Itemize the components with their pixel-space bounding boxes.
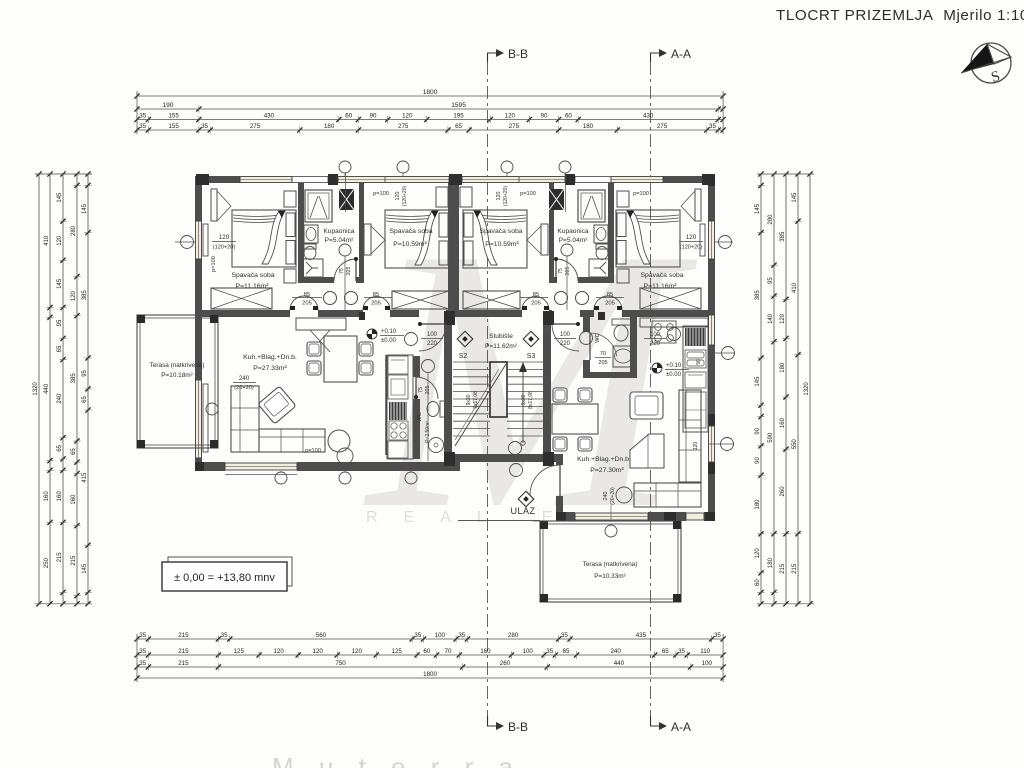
bedroom3 bed <box>463 210 527 268</box>
svg-text:160: 160 <box>71 494 77 505</box>
interior wall bath2/bedroom4 <box>608 183 614 283</box>
left dimension block end lines <box>35 173 92 175</box>
right dimension chain col 2 <box>773 174 775 604</box>
left dimension chain col 2 <box>49 174 51 604</box>
left level marker <box>367 329 377 339</box>
watermark logo M <box>362 172 702 587</box>
bedroom3 wardrobe <box>541 224 548 255</box>
svg-text:1320: 1320 <box>33 382 39 396</box>
svg-text:65: 65 <box>662 648 669 655</box>
wall pier blocks right wall <box>708 414 715 426</box>
svg-text:Spavača soba: Spavača soba <box>479 228 522 235</box>
svg-text:Kuh.+Blag.+Dn.b.: Kuh.+Blag.+Dn.b. <box>243 354 297 361</box>
top dimension block end lines <box>136 91 138 134</box>
right living armchair <box>630 392 663 419</box>
wall pier blocks top <box>196 174 209 185</box>
left living sofa vertical <box>231 386 259 452</box>
svg-text:35: 35 <box>546 648 553 655</box>
svg-text:95: 95 <box>768 277 774 284</box>
stair marker S3 <box>523 331 539 347</box>
svg-text:205: 205 <box>598 360 607 366</box>
left apartment entry door <box>419 323 446 325</box>
window left unit bottom wall <box>225 462 297 471</box>
svg-text:100: 100 <box>702 660 713 667</box>
svg-text:Kupaonica: Kupaonica <box>557 228 588 235</box>
grid balloon left wall bedroom1 <box>181 236 194 249</box>
svg-text:275: 275 <box>509 123 520 130</box>
terrace left corner posts <box>137 315 145 323</box>
svg-text:160: 160 <box>780 417 786 428</box>
window bedroom4 top <box>611 176 663 183</box>
svg-text:145: 145 <box>57 278 63 289</box>
left living chairs <box>307 342 321 356</box>
window right wall kitchen <box>708 315 715 345</box>
left living armchair <box>258 386 296 424</box>
svg-text:100: 100 <box>560 332 571 338</box>
entrance door ULAZ <box>559 465 561 496</box>
svg-text:35: 35 <box>678 648 685 655</box>
grid balloons top <box>339 161 351 173</box>
window bedroom3 top <box>462 176 565 183</box>
svg-text:Kupaonica: Kupaonica <box>323 228 354 235</box>
left apartment wc wall <box>413 356 420 377</box>
svg-text:430: 430 <box>643 113 654 120</box>
svg-text:85: 85 <box>607 292 613 298</box>
svg-text:1320: 1320 <box>804 382 810 396</box>
wc right wall right <box>630 317 637 372</box>
top dimension chain row detail 1 <box>137 119 723 121</box>
svg-text:35: 35 <box>139 123 146 130</box>
svg-text:100: 100 <box>427 332 438 338</box>
section marker A-A top <box>651 53 661 62</box>
bathroom1 shower <box>305 190 332 222</box>
corridor marker circles right <box>555 292 568 305</box>
right entry balloon <box>580 332 593 345</box>
left dimension chain col 4 <box>76 174 78 604</box>
bedroom2 bed <box>385 210 449 268</box>
svg-text:155: 155 <box>168 123 179 130</box>
svg-text:280: 280 <box>768 214 774 225</box>
svg-text:590: 590 <box>768 432 774 443</box>
svg-text:100: 100 <box>523 648 534 655</box>
bathroom1 door arc <box>334 259 356 281</box>
svg-text:Spavača soba: Spavača soba <box>231 272 274 279</box>
svg-text:75: 75 <box>418 387 424 393</box>
svg-text:+0.10: +0.10 <box>381 329 397 335</box>
svg-text:410: 410 <box>792 282 798 293</box>
svg-text:WC: WC <box>417 412 423 422</box>
left kitchen sink cabinet <box>388 441 408 458</box>
svg-text:160: 160 <box>44 491 50 502</box>
right dining table <box>552 404 598 434</box>
terrace left walls <box>137 315 218 448</box>
window bedroom1 left wall <box>195 221 202 259</box>
svg-text:195: 195 <box>453 113 464 120</box>
right sofa horizontal <box>634 483 701 507</box>
svg-text:B-B: B-B <box>508 720 528 734</box>
section line B-B <box>487 62 489 716</box>
svg-text:35: 35 <box>139 660 146 667</box>
left kitchen upper cabinet <box>388 356 408 374</box>
svg-text:35: 35 <box>714 632 721 639</box>
svg-text:160: 160 <box>480 648 491 655</box>
svg-text:P=10.59m²: P=10.59m² <box>485 241 519 248</box>
svg-text:140: 140 <box>768 313 774 324</box>
svg-text:9x30: 9x30 <box>466 394 472 405</box>
svg-text:125: 125 <box>234 648 245 655</box>
bedroom4 bed <box>616 210 680 267</box>
svg-text:440: 440 <box>614 660 625 667</box>
bedroom4 wardrobe <box>695 189 701 221</box>
right dimension chain col 3 <box>785 174 787 604</box>
bedroom4 nightstands <box>617 191 629 207</box>
stairwell wall left <box>444 311 452 462</box>
svg-text:70: 70 <box>445 648 452 655</box>
svg-text:120: 120 <box>686 234 697 241</box>
left dimension chain col 1320 <box>38 174 40 604</box>
stair break line <box>455 364 506 446</box>
svg-text:220: 220 <box>560 341 571 347</box>
svg-text:120: 120 <box>57 235 63 246</box>
right round table <box>616 487 632 503</box>
svg-text:65: 65 <box>455 123 462 130</box>
svg-text:155: 155 <box>168 113 179 120</box>
left kitchen counter <box>387 355 413 459</box>
svg-text:p=100: p=100 <box>211 256 217 272</box>
terrace right corner posts <box>540 521 548 529</box>
svg-text:120: 120 <box>505 113 516 120</box>
svg-text:P=11.62m²: P=11.62m² <box>485 343 518 350</box>
svg-text:100: 100 <box>435 632 446 639</box>
svg-text:205: 205 <box>371 301 381 307</box>
stair marker S2 <box>457 331 473 347</box>
svg-text:(20+20): (20+20) <box>610 487 616 505</box>
bathroom2 balloon stem upper <box>565 173 567 212</box>
svg-text:120: 120 <box>780 313 786 324</box>
exterior wall top thin band over bath1 <box>292 177 328 183</box>
svg-text:120: 120 <box>71 290 77 301</box>
svg-text:A-A: A-A <box>671 720 691 734</box>
wc right wall left stubs <box>583 317 590 332</box>
svg-text:120: 120 <box>693 442 699 451</box>
svg-text:35: 35 <box>201 123 208 130</box>
bedroom3 closet <box>463 291 520 309</box>
svg-text:1800: 1800 <box>423 671 437 678</box>
watermark letters REAL E <box>366 509 578 526</box>
svg-text:120: 120 <box>395 192 401 201</box>
right sofa vertical <box>679 390 701 482</box>
svg-text:440: 440 <box>44 383 50 394</box>
left kitchen stove <box>389 421 408 440</box>
svg-text:P=10.33m²: P=10.33m² <box>594 573 625 580</box>
porch edge line <box>458 520 540 522</box>
left living sideboard top <box>296 318 346 330</box>
bedroom1 bed <box>232 210 296 267</box>
svg-text:Kuh.+Blag.+Dn.b.: Kuh.+Blag.+Dn.b. <box>577 456 631 463</box>
stair steps left flight <box>453 361 490 363</box>
svg-text:180: 180 <box>324 123 335 130</box>
svg-text:240: 240 <box>57 393 63 404</box>
window right unit bottom wall sliding door <box>575 512 648 521</box>
svg-text:275: 275 <box>657 123 668 130</box>
svg-text:90: 90 <box>370 113 377 120</box>
svg-text:(120+20): (120+20) <box>503 186 509 206</box>
right kitchen right counter <box>683 326 708 432</box>
interior wall bedrooms/living <box>202 310 290 317</box>
svg-text:85: 85 <box>304 292 310 298</box>
svg-text:205: 205 <box>605 301 615 307</box>
svg-text:85: 85 <box>373 292 379 298</box>
svg-text:205: 205 <box>565 267 571 276</box>
svg-text:220: 220 <box>427 341 438 347</box>
elevation note box shadow <box>168 557 292 586</box>
svg-text:145: 145 <box>792 192 798 203</box>
svg-text:550: 550 <box>792 439 798 450</box>
svg-text:P=10.18m²: P=10.18m² <box>161 372 192 379</box>
window right wall living <box>708 426 715 462</box>
right level marker <box>0 0 1 1</box>
svg-text:P=27.33m²: P=27.33m² <box>253 365 287 372</box>
svg-text:±0.00: ±0.00 <box>381 338 397 344</box>
right kitchen sink <box>685 350 706 368</box>
svg-text:± 0,00 = +13,80 mnv: ± 0,00 = +13,80 mnv <box>174 572 275 584</box>
bottom dimension chain row detail 2 <box>137 654 723 656</box>
bathroom1 vent shaft <box>339 189 354 210</box>
wall pier blocks bottom right unit <box>556 512 566 521</box>
svg-text:1800: 1800 <box>423 89 438 96</box>
bathroom2 shower <box>578 190 605 222</box>
section line A-A <box>650 62 652 716</box>
left apartment kitchen wall line <box>385 355 387 455</box>
interior wall bedroom1/bath1 <box>298 183 304 283</box>
svg-text:260: 260 <box>780 486 786 497</box>
svg-text:35: 35 <box>709 123 716 130</box>
svg-text:250: 250 <box>44 557 50 568</box>
left wc toilet <box>440 401 446 417</box>
svg-text:35: 35 <box>414 632 421 639</box>
grid balloon left wall living <box>206 403 218 415</box>
svg-text:Terasa (natkrivena): Terasa (natkrivena) <box>150 362 205 369</box>
right dimension block end lines <box>757 173 814 175</box>
wall pier block left wall bottom corner <box>195 462 204 471</box>
bathroom2 toilet <box>596 244 608 249</box>
svg-text:120: 120 <box>352 648 363 655</box>
section marker B-B bottom <box>488 716 498 726</box>
section marker B-B top <box>488 53 498 62</box>
bottom dimension chain row 1800 <box>137 677 723 679</box>
left dimension chain col 3 <box>62 174 64 604</box>
svg-text:120: 120 <box>219 234 230 241</box>
bedroom2 door dome <box>363 297 390 311</box>
entrance diamond <box>518 491 534 507</box>
svg-text:(120+20): (120+20) <box>680 245 703 251</box>
svg-text:430: 430 <box>264 113 275 120</box>
svg-text:120: 120 <box>402 113 413 120</box>
bedroom1 nightstands <box>284 191 296 207</box>
right kitchen stove <box>652 321 676 343</box>
svg-text:7x17,08: 7x17,08 <box>473 391 479 409</box>
svg-text:280: 280 <box>508 632 519 639</box>
interior wall apartment separation <box>448 183 459 310</box>
stair spine <box>490 362 507 417</box>
svg-text:260: 260 <box>500 660 511 667</box>
svg-text:B-B: B-B <box>508 47 528 61</box>
svg-text:P=5.04m²: P=5.04m² <box>559 237 589 244</box>
svg-text:35: 35 <box>139 648 146 655</box>
window right unit bottom wall small <box>686 512 704 521</box>
window living left wall <box>195 380 202 458</box>
svg-text:385: 385 <box>71 373 77 384</box>
svg-text:60: 60 <box>755 579 761 586</box>
svg-text:110: 110 <box>700 648 710 655</box>
svg-text:180: 180 <box>755 499 761 510</box>
corridor marker circles left <box>324 292 337 305</box>
svg-text:±0.00: ±0.00 <box>666 372 682 378</box>
bathroom2 vent shaft <box>549 189 564 210</box>
bedroom2 closet <box>392 291 449 309</box>
grid balloon terrace right <box>605 525 617 537</box>
svg-text:215: 215 <box>71 555 77 566</box>
right second balloon <box>668 328 681 341</box>
svg-text:215: 215 <box>780 563 786 574</box>
grid balloons below left unit <box>275 472 287 484</box>
exterior wall right <box>708 176 715 521</box>
svg-text:35: 35 <box>139 632 146 639</box>
svg-text:65: 65 <box>563 648 570 655</box>
svg-text:415: 415 <box>82 472 88 483</box>
svg-text:M u t e r r a: M u t e r r a <box>272 752 522 768</box>
svg-text:125: 125 <box>392 648 403 655</box>
svg-text:95: 95 <box>57 319 63 326</box>
bathroom1 balloon with stem <box>339 244 351 256</box>
svg-text:120: 120 <box>313 648 324 655</box>
svg-text:90: 90 <box>541 113 548 120</box>
svg-text:95: 95 <box>82 369 88 376</box>
svg-text:60: 60 <box>345 113 352 120</box>
bathroom2 washing machine <box>589 259 610 277</box>
svg-text:205: 205 <box>302 301 312 307</box>
exterior wall left <box>195 176 202 471</box>
svg-text:90: 90 <box>755 427 761 434</box>
bathroom2 sink <box>594 225 608 243</box>
svg-text:275: 275 <box>250 123 261 130</box>
bedroom1 closet <box>211 288 272 309</box>
left unit bottom window outer sill <box>225 474 297 476</box>
svg-text:p=100: p=100 <box>520 191 536 197</box>
bathroom1 south wall <box>298 277 334 283</box>
svg-text:90: 90 <box>755 457 761 464</box>
right kitchen top counter <box>640 318 708 327</box>
svg-text:120: 120 <box>755 548 761 559</box>
svg-text:35: 35 <box>561 632 568 639</box>
elevation note box <box>162 562 287 591</box>
svg-text:70: 70 <box>600 351 606 357</box>
left living small table bottom <box>337 448 353 464</box>
left living sofa horizontal <box>259 429 325 452</box>
bathroom1 toilet <box>304 244 316 249</box>
svg-text:410: 410 <box>44 235 50 246</box>
svg-text:560: 560 <box>316 632 327 639</box>
left dimension chain col 5 <box>87 174 89 604</box>
svg-text:215: 215 <box>178 632 189 639</box>
svg-text:P=5.04m²: P=5.04m² <box>325 237 355 244</box>
svg-text:90: 90 <box>696 359 702 365</box>
right kitchen fridge coil <box>685 328 706 346</box>
svg-text:120: 120 <box>273 648 284 655</box>
svg-text:Spavača soba: Spavača soba <box>640 272 683 279</box>
svg-text:240: 240 <box>239 375 250 382</box>
svg-text:385: 385 <box>755 290 761 301</box>
bedroom1 door dome <box>290 296 318 310</box>
svg-text:60: 60 <box>565 113 572 120</box>
right wc toilet <box>612 319 631 325</box>
right apartment west wall upper stub <box>556 454 563 465</box>
exterior wall bottom right unit <box>556 512 715 521</box>
svg-text:35: 35 <box>139 113 146 120</box>
svg-text:60: 60 <box>423 648 430 655</box>
svg-text:145: 145 <box>82 203 88 214</box>
svg-text:P=10.59m²: P=10.59m² <box>393 241 427 248</box>
stair steps right flight <box>507 361 545 363</box>
bottom dimension chain row detail 1 <box>137 638 723 640</box>
svg-text:Stubište: Stubište <box>489 333 513 340</box>
svg-text:215: 215 <box>792 563 798 574</box>
svg-text:65: 65 <box>82 395 88 402</box>
right dimension chain col 1 <box>760 174 762 604</box>
bathroom2 south wall <box>549 277 557 283</box>
exterior wall top thin band over bath2 <box>575 177 611 183</box>
right dining chairs <box>553 388 567 402</box>
right apartment entry door <box>552 323 579 325</box>
bedroom4 closet <box>640 288 701 309</box>
watermark bottom edge remnants <box>272 752 522 768</box>
right wc door <box>590 333 617 356</box>
bedroom3 nightstand <box>460 187 472 207</box>
svg-text:750: 750 <box>335 660 346 667</box>
left kitchen fridge <box>388 375 408 399</box>
svg-text:+0.10: +0.10 <box>666 363 682 369</box>
exterior wall bottom left unit <box>195 462 460 471</box>
grid balloon right wall living <box>721 438 734 451</box>
svg-text:205: 205 <box>531 301 541 307</box>
left wc boiler <box>429 438 444 453</box>
wall pier block bath walls <box>359 312 365 320</box>
north compass <box>971 43 1011 83</box>
svg-text:P=11.16m²: P=11.16m² <box>236 283 270 290</box>
svg-text:75: 75 <box>558 268 564 274</box>
bottom dimension chain row detail 3 <box>137 666 723 668</box>
stairwell bottom balloons <box>509 442 522 455</box>
bathroom2 balloon with stem <box>561 244 573 256</box>
svg-text:215: 215 <box>178 648 189 655</box>
interior wall bath1/bedroom2 <box>359 183 364 283</box>
svg-text:p=100: p=100 <box>305 448 321 454</box>
svg-text:P=27.30m²: P=27.30m² <box>590 467 624 474</box>
svg-text:ULAZ: ULAZ <box>510 506 535 516</box>
wall pier blocks stair corners <box>444 311 455 325</box>
svg-text:8x17,08: 8x17,08 <box>528 391 534 409</box>
stairwell wall right <box>543 311 551 454</box>
svg-text:145: 145 <box>755 376 761 387</box>
wc right wall bottom <box>583 372 637 378</box>
stair up arrow <box>522 366 524 443</box>
window bedroom4 right wall <box>708 221 715 259</box>
svg-text:435: 435 <box>636 632 647 639</box>
svg-text:P=11.16m²: P=11.16m² <box>644 283 678 290</box>
bedroom2 nightstand <box>436 187 448 207</box>
svg-text:(120+20): (120+20) <box>402 186 408 206</box>
left wc door <box>415 377 417 399</box>
